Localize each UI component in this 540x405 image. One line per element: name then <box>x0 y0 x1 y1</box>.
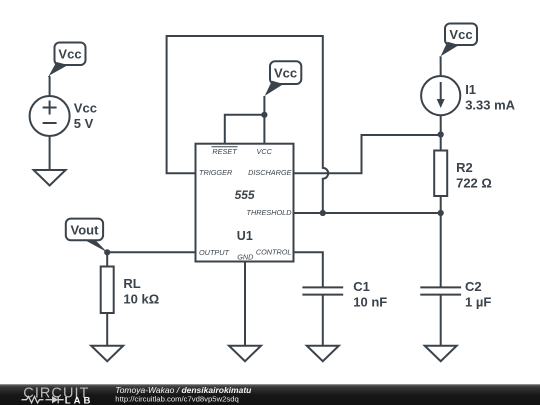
net flag Vout <box>66 219 107 253</box>
svg-text:I1: I1 <box>465 82 476 97</box>
svg-text:DISCHARGE: DISCHARGE <box>248 168 292 177</box>
wire control <box>294 252 323 287</box>
svg-text:C1: C1 <box>353 279 370 294</box>
ground RL <box>91 346 123 362</box>
svg-text:722 Ω: 722 Ω <box>456 176 492 191</box>
svg-text:THRESHOLD: THRESHOLD <box>246 208 292 217</box>
junction threshold-R2 <box>438 210 444 216</box>
svg-text:LAB: LAB <box>65 396 94 405</box>
resistor RL <box>101 267 159 314</box>
power flag Vcc U1 <box>265 61 302 96</box>
wire V1 top <box>48 76 51 97</box>
svg-text:Vcc: Vcc <box>274 65 297 80</box>
svg-text:RESET: RESET <box>212 147 237 156</box>
wire gnd pin <box>244 262 246 346</box>
junction reset-vcc <box>261 112 267 118</box>
svg-text:C2: C2 <box>465 279 482 294</box>
wire C2 bottom <box>440 295 442 346</box>
svg-text:10 kΩ: 10 kΩ <box>123 292 159 307</box>
junction threshold-loop <box>320 210 326 216</box>
wire C1 bottom <box>322 295 324 346</box>
svg-text:http://circuitlab.com/c7vd8vp5: http://circuitlab.com/c7vd8vp5w2sdq <box>115 395 239 404</box>
svg-text:Vout: Vout <box>71 223 100 238</box>
svg-text:555: 555 <box>235 188 255 202</box>
wire I1 to R2 <box>440 115 442 150</box>
ground U1 <box>229 346 261 362</box>
resistor R2 <box>434 151 492 197</box>
wire vcc pin <box>263 96 265 144</box>
555 timer U1 <box>196 144 294 262</box>
wire discharge <box>294 135 441 173</box>
CircuitLab logo <box>22 385 94 405</box>
svg-text:U1: U1 <box>237 229 253 243</box>
wire R2 bottom <box>440 196 442 287</box>
wire trigger-threshold loop <box>167 36 329 213</box>
wire output <box>107 251 195 253</box>
svg-text:Vcc: Vcc <box>74 101 97 116</box>
wire I1 top <box>440 56 442 76</box>
power flag Vcc I1 <box>441 24 477 57</box>
svg-text:TRIGGER: TRIGGER <box>199 168 233 177</box>
wire RL bottom <box>106 313 108 346</box>
svg-text:RL: RL <box>123 276 140 291</box>
svg-text:Vcc: Vcc <box>58 47 81 62</box>
voltage source V1 <box>30 96 97 136</box>
capacitor C1 <box>302 279 387 310</box>
svg-text:5 V: 5 V <box>74 116 94 131</box>
junction output <box>104 249 110 255</box>
current source I1 <box>421 76 516 115</box>
footer credits <box>115 385 252 404</box>
svg-text:Tomoya-Wakao / densikairokimat: Tomoya-Wakao / densikairokimatu <box>115 385 252 395</box>
svg-text:GND: GND <box>237 253 254 262</box>
svg-text:R2: R2 <box>456 160 473 175</box>
svg-text:VCC: VCC <box>256 147 272 156</box>
svg-text:CONTROL: CONTROL <box>256 248 292 257</box>
wire RL top <box>106 252 108 266</box>
wire V1 bottom <box>49 136 51 170</box>
svg-text:Vcc: Vcc <box>449 27 472 42</box>
svg-text:10 nF: 10 nF <box>353 295 387 310</box>
power flag Vcc V1 <box>49 43 86 76</box>
wire reset pin <box>225 115 265 144</box>
ground C1 <box>307 346 339 362</box>
svg-text:3.33 mA: 3.33 mA <box>465 98 515 113</box>
svg-text:OUTPUT: OUTPUT <box>199 248 230 257</box>
capacitor C2 <box>420 279 491 310</box>
junction discharge-R2 <box>438 131 444 137</box>
ground V1 <box>34 170 66 186</box>
ground C2 <box>425 346 457 362</box>
wire threshold <box>294 212 441 214</box>
svg-text:1 µF: 1 µF <box>465 295 491 310</box>
